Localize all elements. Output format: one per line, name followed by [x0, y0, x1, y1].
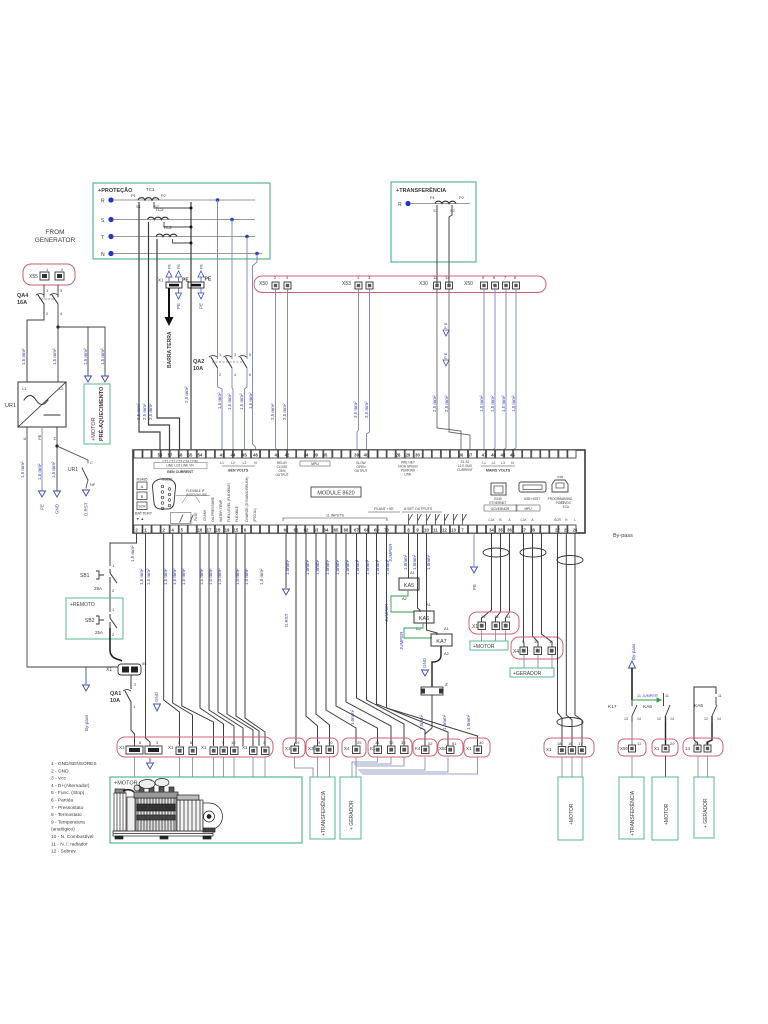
- PE arrows above blocks: [166, 271, 172, 277]
- ecu label: [554, 501, 576, 522]
- svg-text:KA5: KA5: [404, 583, 414, 589]
- svg-text:OUTPUT: OUTPUT: [275, 473, 288, 477]
- SECTION: right relays: [608, 533, 723, 777]
- svg-text:14: 14: [637, 717, 641, 721]
- svg-text:A1: A1: [410, 570, 416, 575]
- jumper 11 green: [632, 698, 661, 702]
- svg-text:A2: A2: [402, 596, 408, 601]
- svg-text:17: 17: [578, 741, 583, 746]
- svg-text:16: 16: [694, 740, 699, 745]
- enclosure +MOTOR right1: [558, 777, 583, 840]
- svg-text:X1: X1: [466, 746, 472, 751]
- ground PE stub: [473, 533, 475, 566]
- svg-text:▼ ▲: ▼ ▲: [136, 517, 144, 521]
- svg-text:NF: NF: [90, 482, 96, 487]
- svg-text:P E: P E: [443, 352, 448, 359]
- svg-text:P1: P1: [430, 195, 436, 200]
- CT TC2: [148, 207, 169, 220]
- svg-text:1,5 mm²: 1,5 mm²: [130, 545, 135, 562]
- svg-text:USB HOST: USB HOST: [524, 497, 540, 501]
- svg-text:CLK: CLK: [520, 518, 527, 522]
- svg-text:42: 42: [285, 452, 290, 457]
- wire input 66 to K1-32: [346, 533, 391, 746]
- enclosure +MOTOR right2: [652, 777, 678, 840]
- wire X30-12 to module 66: [437, 289, 461, 450]
- svg-text:12: 12: [657, 717, 661, 721]
- svg-text:15: 15: [234, 527, 239, 532]
- SECTION: bottom: [51, 737, 714, 855]
- svg-text:1,5 mm²: 1,5 mm²: [479, 395, 484, 412]
- node S terminal: [108, 217, 113, 222]
- wire SB1 to SB2: [109, 583, 111, 612]
- relay coil KA5: [399, 570, 419, 601]
- shield governor: [483, 548, 509, 557]
- box +MOTOR small: [470, 641, 508, 650]
- svg-text:QA2: QA2: [193, 359, 204, 365]
- svg-text:LINK: LINK: [404, 473, 412, 477]
- bus current label: [457, 460, 473, 472]
- connector X1-19: [283, 738, 305, 757]
- svg-text:H: H: [52, 437, 57, 440]
- pushbutton SB2: [85, 614, 117, 637]
- wire mpu shield: [542, 533, 553, 647]
- svg-text:+MOTOR: +MOTOR: [91, 417, 97, 441]
- svg-text:X50: X50: [620, 746, 629, 751]
- wire ecu scr: [558, 533, 563, 746]
- connector K4-52: [413, 739, 437, 756]
- wire input 60 D.RST stub: [285, 533, 287, 588]
- svg-text:MAINS VOLTS: MAINS VOLTS: [486, 469, 511, 473]
- svg-text:K1: K1: [370, 746, 376, 751]
- svg-text:39: 39: [313, 452, 318, 457]
- svg-text:+MOTOR: +MOTOR: [664, 803, 670, 825]
- connector X50-12: [618, 739, 646, 756]
- enclosure +PROTECAO: [93, 183, 270, 259]
- wire KA5 to terminal 17: [708, 722, 713, 745]
- svg-text:1,0 mm²: 1,0 mm²: [235, 568, 240, 585]
- svg-text:1,0 mm²: 1,0 mm²: [259, 568, 264, 585]
- connector X1 main row: [117, 737, 273, 757]
- connector X30 9/10: [306, 738, 338, 757]
- svg-text:GEN CURRENT: GEN CURRENT: [167, 470, 194, 474]
- svg-text:PE: PE: [40, 504, 45, 510]
- genset drawing: [113, 779, 223, 840]
- svg-text:65: 65: [334, 527, 339, 532]
- wire mpu a: [533, 533, 539, 647]
- svg-text:FLEXIBLE: FLEXIBLE: [235, 505, 239, 522]
- svg-text:X1: X1: [168, 745, 174, 750]
- wire CT1 S1 drop: [139, 202, 160, 450]
- arrow heater feed 2: [102, 372, 109, 382]
- svg-text:1,5 mm²: 1,5 mm²: [83, 348, 88, 365]
- svg-text:19: 19: [295, 740, 300, 745]
- pre heat label: [398, 461, 418, 477]
- svg-text:1,0mm²: 1,0mm²: [403, 554, 408, 570]
- svg-text:25A: 25A: [94, 586, 102, 591]
- svg-text:61: 61: [294, 527, 299, 532]
- svg-text:X4: X4: [344, 746, 350, 751]
- svg-text:3: 3: [234, 353, 236, 357]
- enclosure +GERADOR left: [340, 777, 361, 839]
- SECTION: red band: [254, 275, 546, 450]
- enclosure +GERADOR right: [694, 777, 714, 838]
- svg-text:+ GERADOR: + GERADOR: [703, 798, 709, 828]
- svg-text:UR1: UR1: [5, 403, 16, 409]
- flexible note: [186, 489, 207, 497]
- svg-text:67: 67: [354, 527, 359, 532]
- ethernet port icon: [489, 483, 506, 505]
- svg-text:L2: L2: [492, 461, 496, 465]
- ground by-pass arrow: [83, 667, 90, 691]
- wire input 69 to X50-51: [377, 533, 449, 746]
- svg-text:T: T: [101, 235, 104, 241]
- contact K17: [608, 700, 641, 722]
- svg-text:+MOTOR: +MOTOR: [569, 803, 575, 825]
- wire module 19 to X1-4: [227, 533, 253, 746]
- svg-text:35: 35: [498, 527, 503, 532]
- wires ecu to motor enclosure: [561, 757, 563, 777]
- svg-text:58: 58: [178, 452, 183, 457]
- svg-text:By-pass: By-pass: [84, 714, 89, 731]
- svg-text:37: 37: [521, 527, 526, 532]
- svg-text:MPU: MPU: [524, 507, 532, 511]
- svg-text:QA4: QA4: [17, 293, 29, 299]
- wire module 2 to SB1: [110, 533, 137, 566]
- svg-text:38: 38: [530, 527, 535, 532]
- svg-text:39: 39: [354, 452, 359, 457]
- svg-text:1,0mm²: 1,0mm²: [412, 554, 417, 570]
- node heater tap: [56, 325, 59, 328]
- connector X53: [342, 275, 373, 289]
- wire CT3 S2 link: [173, 239, 192, 243]
- svg-text:1,5 mm²: 1,5 mm²: [37, 463, 42, 480]
- svg-text:A2: A2: [416, 626, 422, 631]
- svg-text:+ GERADOR: + GERADOR: [349, 800, 355, 830]
- wire CT S1 drop: [436, 205, 438, 285]
- contact KA5 with loop: [694, 687, 722, 740]
- svg-text:3 - Vcc: 3 - Vcc: [51, 776, 67, 782]
- svg-text:1,5 mm²: 1,5 mm²: [52, 348, 57, 365]
- svg-text:GENERATOR: GENERATOR: [35, 237, 76, 244]
- SECTION: inputs: [283, 533, 478, 746]
- svg-text:S2: S2: [450, 208, 456, 213]
- breaker QA4 16A: [17, 293, 58, 306]
- svg-text:X1: X1: [158, 278, 164, 283]
- svg-text:PE: PE: [200, 263, 204, 269]
- enclosure +REMOTO: [66, 598, 123, 639]
- node N sense: [255, 252, 259, 256]
- svg-text:+TRANSFERÊNCIA: +TRANSFERÊNCIA: [396, 186, 446, 194]
- svg-text:52: 52: [428, 741, 433, 746]
- svg-text:45: 45: [242, 452, 247, 457]
- RS485 port: [137, 478, 148, 510]
- svg-text:20: 20: [670, 741, 675, 746]
- svg-text:1,0mm²: 1,0mm²: [345, 559, 350, 575]
- svg-text:1,0mm²: 1,0mm²: [285, 559, 290, 575]
- svg-text:10: 10: [231, 740, 236, 745]
- connector K1 31/32/33: [368, 738, 412, 757]
- connector X4 9/10/11: [511, 637, 563, 659]
- svg-text:X30: X30: [419, 281, 428, 287]
- gen volts arrows and label: [220, 461, 257, 465]
- wire CT3 S1 drop: [157, 239, 180, 450]
- svg-text:CHARGE (DYNAMO BRUSH): CHARGE (DYNAMO BRUSH): [245, 477, 249, 522]
- ground GND arrow: [54, 491, 61, 497]
- svg-text:1,5 mm²: 1,5 mm²: [511, 395, 516, 412]
- wire module 16 to X1-9: [200, 533, 224, 746]
- node S sense: [230, 218, 234, 222]
- svg-text:26: 26: [573, 527, 578, 532]
- wire phase R: [410, 203, 470, 205]
- node common 1: [190, 207, 193, 210]
- svg-text:51: 51: [452, 741, 457, 746]
- svg-text:X1: X1: [654, 746, 660, 751]
- svg-text:4 - D+(Alternador): 4 - D+(Alternador): [51, 783, 90, 789]
- svg-text:1,5 mm²: 1,5 mm²: [501, 395, 506, 412]
- svg-text:X4: X4: [513, 649, 519, 655]
- input function labels rotated: [211, 477, 257, 522]
- svg-text:1: 1: [219, 353, 221, 357]
- svg-text:47: 47: [482, 452, 487, 457]
- svg-text:PE: PE: [205, 277, 212, 283]
- wire X50-8 to module 45: [512, 289, 516, 450]
- svg-text:2,5 mm²: 2,5 mm²: [432, 395, 437, 412]
- svg-text:35: 35: [323, 452, 328, 457]
- svg-text:11: 11: [665, 694, 669, 698]
- module DSE 8620 outline: [133, 450, 585, 533]
- svg-text:1,0mm²: 1,0mm²: [315, 559, 320, 575]
- svg-text:66: 66: [344, 527, 349, 532]
- PE arrows below blocks: [178, 288, 180, 293]
- svg-text:K17: K17: [608, 704, 617, 710]
- wire N sense drop: [253, 254, 258, 451]
- svg-text:X53: X53: [342, 281, 351, 287]
- node UR1 aux tap: [55, 444, 58, 447]
- wire module 2 to X1-5: [164, 533, 180, 746]
- svg-text:12: 12: [442, 527, 447, 532]
- svg-text:5 - Func. (Stop): 5 - Func. (Stop): [51, 790, 85, 796]
- connector X4-25: [342, 738, 366, 757]
- arrow heater feed 1: [85, 372, 92, 382]
- svg-text:19: 19: [225, 527, 230, 532]
- svg-text:MODULE 8620: MODULE 8620: [317, 491, 354, 497]
- enclosure +TRANSFERENCIA left: [310, 777, 335, 839]
- svg-text:A1: A1: [426, 602, 432, 607]
- svg-text:PORT: PORT: [556, 501, 565, 505]
- svg-text:P2: P2: [161, 193, 167, 198]
- svg-text:X50: X50: [464, 281, 473, 287]
- svg-text:55: 55: [188, 452, 193, 457]
- wire X1 to QA1: [130, 675, 132, 689]
- CT transfer: [430, 195, 465, 213]
- bracket 11 inputs: [283, 518, 387, 521]
- wires to transferencia/gerador: [295, 757, 478, 777]
- svg-text:A: A: [141, 484, 144, 489]
- SECTION: top-left source: [5, 229, 110, 667]
- rectifier UR1: [5, 382, 66, 427]
- wire X50-2 to module 41: [276, 289, 278, 450]
- svg-text:OUTPUT: OUTPUT: [354, 469, 367, 473]
- wire governor A: [506, 533, 510, 622]
- connector X50a: [259, 275, 291, 289]
- svg-text:1,5 mm²: 1,5 mm²: [20, 461, 25, 478]
- svg-text:2,5 mm²: 2,5 mm²: [184, 386, 189, 403]
- svg-text:6: 6: [249, 373, 251, 377]
- wire input 61 to X1-19: [295, 533, 297, 746]
- svg-text:P2: P2: [459, 195, 465, 200]
- svg-text:L: L: [574, 518, 576, 522]
- svg-text:X30: X30: [308, 746, 317, 751]
- svg-text:L3: L3: [501, 461, 505, 465]
- wire X55-2 to QA4: [57, 285, 59, 297]
- svg-text:57: 57: [168, 452, 173, 457]
- svg-text:1,5 mm²: 1,5 mm²: [199, 568, 204, 585]
- svg-text:43: 43: [220, 452, 225, 457]
- node common 3: [190, 242, 193, 245]
- svg-text:KA6: KA6: [419, 616, 429, 622]
- node T terminal: [108, 234, 113, 239]
- svg-text:L3: L3: [243, 461, 247, 465]
- svg-text:2,5 mm²: 2,5 mm²: [270, 403, 275, 420]
- svg-text:D.RST: D.RST: [84, 502, 89, 516]
- svg-text:41: 41: [275, 452, 280, 457]
- svg-text:L1: L1: [220, 461, 224, 465]
- svg-text:X1: X1: [119, 745, 125, 750]
- svg-text:25: 25: [564, 527, 569, 532]
- wire X50-5 to module 47: [483, 289, 485, 450]
- connector X30: [419, 275, 453, 289]
- svg-text:X50: X50: [259, 281, 268, 287]
- usb host icon: [519, 482, 546, 501]
- wires into gerador label: [523, 655, 525, 668]
- svg-text:46: 46: [253, 452, 258, 457]
- svg-text:FUSE: FUSE: [194, 512, 198, 521]
- svg-text:+MOTOR: +MOTOR: [114, 781, 138, 787]
- svg-text:70: 70: [384, 527, 389, 532]
- wire X53-1 to module 39: [357, 289, 359, 450]
- svg-text:5: 5: [249, 353, 251, 357]
- svg-text:66: 66: [459, 452, 464, 457]
- svg-text:L1: L1: [22, 386, 27, 391]
- svg-text:1,0mm²: 1,0mm²: [325, 559, 330, 575]
- wire phase R: [113, 199, 255, 201]
- wire module 10 to KA7: [427, 533, 438, 635]
- connector X1-20: [652, 739, 678, 756]
- svg-text:LINE L2/1 LINE VN: LINE L2/1 LINE VN: [166, 464, 194, 468]
- wire input 65 to K1-31: [336, 533, 378, 746]
- svg-text:11: 11: [433, 527, 438, 532]
- svg-text:PE: PE: [199, 303, 204, 309]
- wire governor CLK: [482, 533, 492, 622]
- enclosure +TRANSFERENCIA right: [619, 777, 644, 839]
- svg-text:A1: A1: [444, 626, 450, 631]
- svg-text:10: 10: [424, 527, 429, 532]
- wire X30-14 to module 67: [449, 289, 470, 450]
- svg-text:By-pass: By-pass: [613, 533, 633, 539]
- governor label: [488, 507, 511, 522]
- svg-text:56: 56: [158, 452, 163, 457]
- svg-text:9 - Temperatura: 9 - Temperatura: [51, 819, 85, 825]
- svg-text:S1: S1: [433, 208, 439, 213]
- svg-text:X1: X1: [472, 624, 478, 630]
- svg-text:14: 14: [506, 614, 511, 619]
- contact UR1 aux: [57, 446, 96, 516]
- svg-text:34: 34: [489, 527, 494, 532]
- svg-text:(MOD) IN USE: (MOD) IN USE: [186, 493, 207, 497]
- wire module 15: [236, 533, 259, 746]
- terminal X1 PE block right: [188, 277, 212, 289]
- svg-text:12 - Sobrev.: 12 - Sobrev.: [51, 849, 77, 855]
- wire SB2 to X1: [110, 628, 122, 661]
- wire S sense drop: [231, 220, 233, 360]
- svg-text:69: 69: [374, 527, 379, 532]
- ground GND at X1-3: [154, 704, 161, 711]
- wire input 70 to X1-30: [387, 533, 478, 746]
- wire CT2 S2 link: [164, 222, 191, 227]
- wire T sense drop: [246, 237, 248, 360]
- fuse crank labels: [194, 509, 207, 521]
- svg-text:2: 2: [219, 373, 221, 377]
- svg-text:10: 10: [534, 639, 539, 644]
- node R sense: [216, 198, 220, 202]
- svg-text:1,5 mm²: 1,5 mm²: [139, 568, 144, 585]
- svg-text:2,5 mm²: 2,5 mm²: [136, 403, 141, 420]
- svg-text:2 - GND: 2 - GND: [51, 768, 69, 774]
- svg-text:1,0 mm²: 1,0 mm²: [244, 568, 249, 585]
- svg-text:X1: X1: [106, 667, 112, 673]
- svg-text:18: 18: [216, 527, 221, 532]
- wire mpu clk: [523, 533, 526, 647]
- svg-text:PE: PE: [472, 584, 477, 590]
- svg-text:1,0 mm²: 1,0 mm²: [208, 568, 213, 585]
- module top terminal strip: [134, 450, 142, 458]
- svg-text:1,5 mm²: 1,5 mm²: [51, 461, 56, 478]
- svg-text:1,5 mm²: 1,5 mm²: [239, 393, 244, 410]
- svg-text:OIL PRESSURE: OIL PRESSURE: [211, 496, 215, 522]
- svg-text:1,5 mm²: 1,5 mm²: [217, 392, 222, 409]
- svg-text:18: 18: [557, 741, 562, 746]
- svg-text:KA7: KA7: [436, 639, 446, 645]
- svg-text:1,0mm²: 1,0mm²: [335, 559, 340, 575]
- svg-text:11 - N. l. radiador: 11 - N. l. radiador: [51, 841, 88, 847]
- svg-text:2,5 mm²: 2,5 mm²: [148, 403, 153, 420]
- wire input 64 to X4-25: [326, 533, 356, 746]
- svg-text:A SET OUTPUTS: A SET OUTPUTS: [404, 507, 433, 511]
- connector X1 18/16/17: [544, 738, 594, 757]
- connector 14/16/17: [683, 738, 723, 756]
- wire CT common: [190, 202, 192, 450]
- svg-text:68: 68: [364, 527, 369, 532]
- wire K17 to X50-12: [631, 722, 633, 745]
- svg-text:SB1: SB1: [80, 573, 90, 579]
- svg-text:X1: X1: [285, 746, 291, 751]
- svg-text:12: 12: [637, 741, 642, 746]
- svg-text:A2: A2: [444, 651, 450, 656]
- nameplate MODULE 8620: [311, 487, 361, 497]
- SECTION: left chain: [27, 533, 147, 746]
- svg-text:QA1: QA1: [110, 691, 121, 697]
- svg-text:L1: L1: [482, 461, 486, 465]
- svg-text:BATTERY: BATTERY: [135, 512, 153, 516]
- connector X1-30: [464, 738, 490, 757]
- arrow by-pass up: [629, 661, 636, 668]
- wire X50-6 to module 48: [493, 289, 495, 450]
- SECTION: bundles: [469, 533, 594, 777]
- ground PE arrow: [39, 491, 46, 497]
- svg-text:14: 14: [670, 717, 674, 721]
- SECTION: relay coils: [384, 533, 452, 746]
- svg-text:JUMPER: JUMPER: [384, 603, 389, 622]
